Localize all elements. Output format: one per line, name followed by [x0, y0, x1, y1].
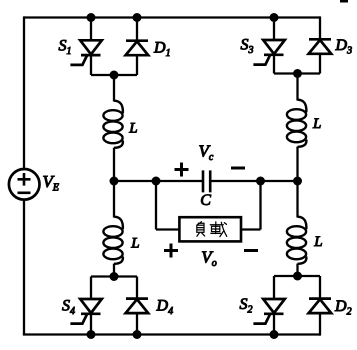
svg-text:S4: S4: [62, 298, 75, 318]
top rail: [24, 16, 320, 18]
wire D2 anode stub: [319, 313, 321, 336]
wire S4 anode stub: [90, 277, 92, 300]
node bottom rail / D4: [133, 330, 142, 339]
thyristor S1: [70, 40, 101, 65]
wire S2 cathode stub: [273, 314, 275, 335]
svg-text:L: L: [312, 116, 321, 132]
wire L2 to S4/D4 junction: [113, 264, 115, 277]
wire D2 drop from connector: [319, 276, 321, 299]
wire center rail to L2: [113, 181, 115, 218]
svg-text:L: L: [130, 236, 139, 252]
diode D1: [126, 41, 149, 56]
stray cropped mark top right: [340, 0, 348, 3]
svg-text:S2: S2: [240, 296, 253, 316]
wire D3 anode stub: [319, 54, 321, 74]
node center rail right: [293, 177, 302, 186]
thyristor S4: [70, 299, 101, 324]
inductor L4: [287, 217, 307, 264]
wire D1 anode stub: [136, 55, 138, 75]
capacitor minus sign: [231, 167, 245, 170]
node S2/D2 junction: [293, 272, 302, 281]
center rail right of capacitor: [210, 180, 297, 182]
V_E minus sign: [18, 192, 31, 195]
wire center rail to L4: [296, 181, 298, 218]
inductor L3: [287, 100, 307, 147]
wire S1 anode stub: [90, 18, 92, 41]
left rail upper segment: [23, 16, 25, 169]
diode D4: [126, 299, 149, 314]
svg-text:L: L: [128, 121, 137, 137]
wire D3 drop from top rail: [319, 16, 321, 39]
left rail lower segment: [23, 199, 25, 335]
bottom rail: [23, 333, 320, 335]
wire D1 cathode stub: [136, 18, 138, 42]
wire L1 to center rail: [113, 148, 115, 181]
svg-text:VE: VE: [43, 172, 60, 194]
thyristor S3: [253, 40, 284, 65]
wire S1 cathode stub: [90, 55, 92, 75]
wire S3-D3 bottom connector: [274, 72, 320, 74]
wire load left drop: [156, 181, 179, 230]
wire S3 cathode stub: [273, 55, 275, 74]
thyristor S2: [253, 299, 284, 324]
node S4/D4 junction: [110, 272, 119, 281]
wire load right connection: [241, 181, 261, 230]
svg-text:D1: D1: [153, 39, 171, 59]
node top rail / D1: [133, 13, 142, 22]
wire S1-D1 bottom connector: [91, 74, 137, 76]
svg-text:Vc: Vc: [199, 142, 214, 164]
load text 負載: [197, 222, 227, 237]
svg-text:D2: D2: [334, 298, 352, 318]
wire D4 anode stub: [136, 313, 138, 334]
wire L3 to center rail: [296, 147, 298, 181]
diode D3: [309, 39, 332, 54]
wire S2 anode stub: [273, 276, 275, 299]
capacitor C plates: [203, 170, 210, 192]
load box: [179, 217, 241, 241]
node load left tap: [152, 177, 161, 186]
wire junction to L1: [113, 75, 115, 102]
node top rail / S1: [87, 13, 96, 22]
svg-text:S1: S1: [59, 37, 72, 57]
center rail left of capacitor: [114, 180, 203, 182]
node top rail / S3: [270, 13, 279, 22]
svg-text:D3: D3: [335, 37, 353, 57]
svg-text:Vo: Vo: [201, 248, 216, 270]
wire S4-D4 top connector: [91, 275, 137, 277]
voltage source V_E circle: [9, 169, 40, 200]
node A (S1/D1 junction): [110, 71, 119, 80]
node bottom rail / S4: [87, 330, 96, 339]
diode D2: [309, 299, 332, 314]
capacitor plus sign: [175, 163, 189, 177]
inductor L1: [103, 101, 123, 148]
load plus sign: [164, 244, 178, 258]
inductor L2: [103, 217, 123, 264]
load minus sign: [244, 249, 258, 252]
svg-text:L: L: [313, 234, 322, 250]
svg-text:D4: D4: [156, 298, 174, 318]
wire L4 to S2/D2 junction: [296, 264, 298, 276]
node B (S3/D3 junction): [293, 69, 302, 78]
wire junction to L3: [296, 74, 298, 101]
wire S3 anode stub: [273, 18, 275, 41]
wire D4 cathode stub: [136, 277, 138, 300]
svg-text:S3: S3: [241, 37, 254, 57]
wire S2-D2 top connector: [274, 275, 320, 277]
node load right tap: [256, 177, 265, 186]
svg-text:C: C: [200, 192, 211, 209]
V_E plus sign: [18, 173, 31, 186]
wire S4 cathode stub: [90, 314, 92, 335]
node center rail left: [110, 177, 119, 186]
node bottom rail / S2: [270, 330, 279, 339]
